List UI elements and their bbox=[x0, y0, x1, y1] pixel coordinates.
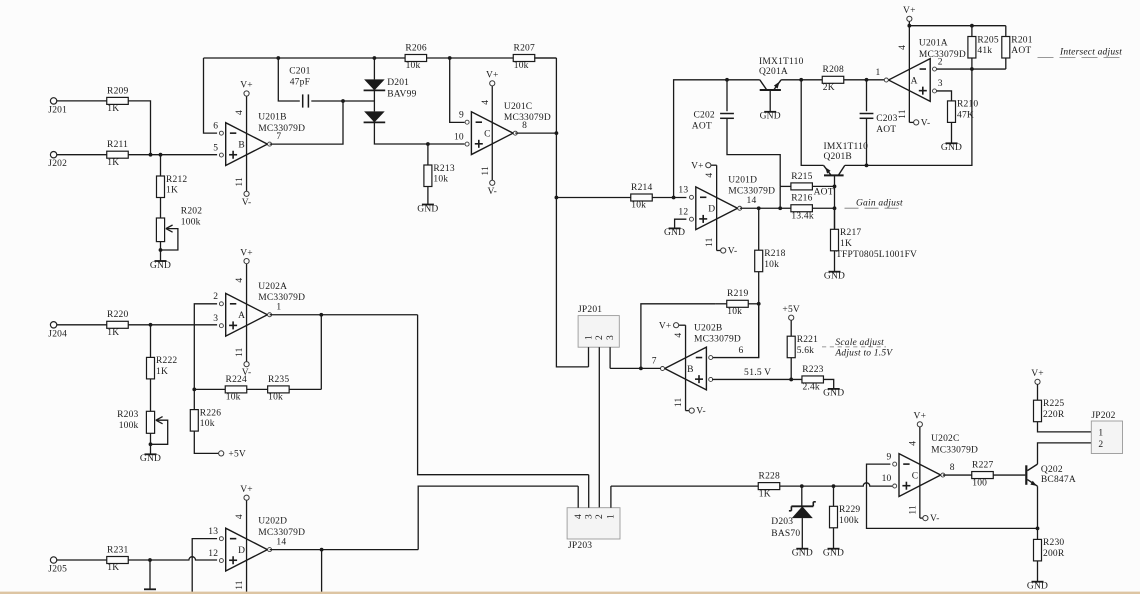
resistor R220 bbox=[107, 310, 129, 338]
svg-text:GND: GND bbox=[760, 112, 781, 122]
power V+ at R225 bbox=[1031, 369, 1044, 384]
svg-text:V+: V+ bbox=[240, 81, 253, 91]
wire R203 to ground bbox=[149, 433, 153, 454]
svg-text:11: 11 bbox=[674, 397, 684, 407]
svg-text:V-: V- bbox=[728, 247, 738, 257]
svg-text:V-: V- bbox=[696, 407, 706, 417]
svg-text:1: 1 bbox=[584, 335, 594, 340]
svg-text:10k: 10k bbox=[226, 393, 241, 403]
label JP201 bbox=[578, 305, 602, 315]
resistor R214 bbox=[631, 183, 653, 211]
resistor R231 bbox=[107, 545, 129, 573]
svg-text:AOT: AOT bbox=[692, 122, 712, 132]
svg-text:R209: R209 bbox=[107, 86, 128, 96]
op-amp U201B section B bbox=[213, 121, 281, 165]
svg-text:GND: GND bbox=[823, 389, 844, 399]
svg-text:Intersect adjust: Intersect adjust bbox=[1059, 47, 1122, 57]
resistor R201 bbox=[1002, 35, 1033, 58]
wire R224 left node bbox=[192, 388, 225, 392]
svg-text:11: 11 bbox=[235, 580, 245, 590]
svg-text:R201: R201 bbox=[1011, 35, 1032, 45]
svg-text:GND: GND bbox=[1027, 582, 1048, 592]
resistor R207 bbox=[513, 43, 535, 71]
wire R215 row bbox=[780, 185, 836, 211]
power +5V at R221 bbox=[782, 305, 800, 320]
wire U201D pin 12 to ground bbox=[675, 219, 687, 228]
resistor R225 bbox=[1034, 399, 1065, 422]
wire to D201 bbox=[373, 58, 375, 79]
JP202 pin 2 label bbox=[1098, 440, 1103, 450]
wire R220 to U202A pin 3 bbox=[128, 323, 217, 327]
wire R225 to JP202 pin 1 bbox=[1038, 422, 1092, 432]
wire Q201B rail left bbox=[801, 80, 823, 166]
wire R213 branch bbox=[426, 142, 430, 165]
wire U202B output to JP201 pin 3 bbox=[610, 367, 660, 371]
wire D203 branch bbox=[801, 486, 803, 506]
svg-text:1: 1 bbox=[607, 514, 617, 519]
svg-text:+5V: +5V bbox=[228, 450, 246, 460]
svg-text:1: 1 bbox=[276, 303, 281, 313]
wire +5V to R221 bbox=[790, 320, 792, 336]
svg-text:V+: V+ bbox=[486, 71, 499, 81]
svg-text:R211: R211 bbox=[107, 140, 128, 150]
resistor R212 bbox=[157, 175, 188, 198]
svg-text:Q201A: Q201A bbox=[759, 67, 788, 77]
wire J202 to R211 bbox=[57, 154, 107, 156]
labels U201C bbox=[504, 102, 551, 123]
svg-text:10k: 10k bbox=[268, 393, 283, 403]
svg-text:R224: R224 bbox=[226, 375, 247, 385]
svg-text:2.4k: 2.4k bbox=[802, 383, 819, 393]
V- power bbox=[721, 247, 738, 257]
svg-text:4: 4 bbox=[574, 514, 584, 519]
JP203 pin 2 bbox=[595, 514, 605, 519]
svg-text:GND: GND bbox=[140, 454, 161, 464]
svg-text:BAV99: BAV99 bbox=[387, 89, 416, 99]
resistor R222 bbox=[147, 356, 178, 379]
wire emitter node to R230 bbox=[1037, 528, 1039, 539]
svg-text:Scale adjust: Scale adjust bbox=[835, 338, 884, 348]
port J204 bbox=[48, 322, 67, 340]
svg-text:10k: 10k bbox=[200, 419, 215, 429]
JP201 pin 3 bbox=[606, 335, 616, 368]
svg-text:D: D bbox=[708, 205, 715, 215]
U201B power rail pins 4/11 bbox=[235, 96, 246, 191]
ground bbox=[760, 112, 781, 122]
wire top feedback rail bbox=[204, 57, 557, 59]
op-amp U202B section B bbox=[652, 346, 749, 390]
svg-text:14: 14 bbox=[276, 537, 286, 547]
svg-text:R202: R202 bbox=[181, 206, 202, 216]
svg-text:V+: V+ bbox=[691, 161, 704, 171]
wire Q202 emitter down bbox=[1037, 486, 1039, 528]
wire R229 to ground bbox=[833, 528, 835, 549]
svg-text:1K: 1K bbox=[107, 328, 119, 338]
wire pin13 node up to C202 rail bbox=[674, 80, 760, 198]
wire C202 bottom to R215 node bbox=[727, 118, 780, 186]
wire pin 6 lead bbox=[712, 304, 759, 358]
wire U202C pin 9 feedback bbox=[867, 464, 1038, 528]
wire R219 row bbox=[715, 303, 727, 305]
svg-text:11: 11 bbox=[705, 237, 715, 247]
resistor R216 bbox=[791, 194, 814, 222]
note Gain adjust bbox=[856, 199, 903, 209]
resistor R221 bbox=[787, 335, 818, 358]
wire node vertical R215-R216 bbox=[779, 186, 781, 208]
svg-text:U202D: U202D bbox=[258, 517, 287, 527]
resistor R213 bbox=[424, 164, 455, 187]
svg-text:10k: 10k bbox=[406, 61, 421, 71]
svg-text:J202: J202 bbox=[48, 159, 67, 169]
node R206/R207/pin9 junction bbox=[448, 56, 452, 60]
svg-text:R220: R220 bbox=[107, 310, 128, 320]
svg-text:MC33079D: MC33079D bbox=[258, 528, 305, 538]
svg-text:GND: GND bbox=[417, 204, 438, 214]
V- power bbox=[242, 362, 252, 379]
wire R227 to Q202 base bbox=[993, 474, 1025, 476]
V+ power bbox=[486, 71, 499, 86]
svg-text:R222: R222 bbox=[156, 356, 177, 366]
svg-text:100k: 100k bbox=[119, 421, 139, 431]
svg-text:9: 9 bbox=[459, 110, 464, 120]
wire output vertical bus bbox=[556, 58, 588, 367]
resistor R205 bbox=[968, 35, 999, 58]
svg-text:D201: D201 bbox=[387, 78, 409, 88]
svg-text:TFPT0805L1001FV: TFPT0805L1001FV bbox=[836, 250, 917, 260]
svg-text:GND: GND bbox=[664, 228, 685, 238]
svg-text:B: B bbox=[687, 365, 694, 375]
resistor R217 bbox=[831, 228, 862, 251]
V- power bbox=[242, 191, 252, 208]
wire R213 to ground bbox=[427, 187, 429, 205]
svg-text:8: 8 bbox=[950, 463, 955, 473]
label R217 part number bbox=[836, 250, 917, 260]
svg-text:R230: R230 bbox=[1043, 538, 1064, 548]
svg-text:10: 10 bbox=[882, 474, 892, 484]
U201C power rail pins 4/11 bbox=[481, 86, 492, 180]
wire R228 to U202C pin 10 (hop over pin9 line) bbox=[780, 483, 893, 488]
resistor R215 bbox=[791, 172, 813, 190]
page bottom border band bbox=[0, 592, 1140, 594]
wire D203 to ground bbox=[801, 518, 803, 549]
svg-text:11: 11 bbox=[235, 347, 245, 357]
wire node to R212 bbox=[160, 155, 162, 176]
svg-text:2: 2 bbox=[213, 292, 218, 302]
svg-text:R229: R229 bbox=[839, 505, 860, 515]
svg-text:6: 6 bbox=[213, 121, 218, 131]
wire Q202 collector to JP202 pin 2 bbox=[1038, 443, 1092, 464]
wire R218 to R219 node bbox=[757, 272, 761, 358]
labels U201A bbox=[919, 39, 966, 60]
wire R212 to R202 bbox=[160, 198, 162, 219]
svg-text:C: C bbox=[484, 130, 491, 140]
svg-text:R227: R227 bbox=[972, 460, 993, 470]
wire J205 to R231 bbox=[57, 559, 107, 561]
V+ power bbox=[903, 6, 916, 21]
svg-text:GND: GND bbox=[792, 549, 813, 559]
ground bbox=[150, 261, 171, 271]
JP201 pin 2 bbox=[595, 335, 605, 508]
svg-text:2: 2 bbox=[595, 514, 605, 519]
svg-text:13: 13 bbox=[678, 186, 688, 196]
svg-text:V+: V+ bbox=[240, 485, 253, 495]
svg-text:4: 4 bbox=[898, 45, 908, 50]
wire U201C pin 8 output bbox=[515, 132, 556, 134]
svg-text:10k: 10k bbox=[433, 175, 448, 185]
wire R231 to U202D pin 12 (hop over pin13 line) bbox=[128, 557, 217, 562]
svg-text:U201C: U201C bbox=[504, 102, 532, 112]
V+ power bbox=[659, 321, 679, 331]
svg-text:3: 3 bbox=[585, 514, 595, 519]
resistor R226 bbox=[190, 408, 221, 431]
node C202 top bbox=[725, 78, 729, 82]
svg-text:5: 5 bbox=[744, 368, 749, 378]
note gain adjust leader bbox=[845, 207, 902, 209]
wire U202C pin 8 output bbox=[943, 474, 972, 476]
node emitter junction bbox=[1036, 527, 1040, 531]
svg-text:1K: 1K bbox=[107, 158, 119, 168]
resistor R228 bbox=[758, 472, 780, 500]
svg-text:47K: 47K bbox=[957, 111, 974, 121]
wire V+ to R225 bbox=[1037, 384, 1039, 400]
svg-text:41k: 41k bbox=[977, 46, 992, 56]
wire U201A pin 3 to R210 bbox=[937, 91, 952, 101]
svg-text:GND: GND bbox=[823, 549, 844, 559]
labels U201B bbox=[258, 113, 305, 134]
svg-text:R217: R217 bbox=[840, 228, 861, 238]
svg-text:100k: 100k bbox=[181, 217, 201, 227]
svg-text:AOT: AOT bbox=[814, 188, 834, 198]
svg-text:2: 2 bbox=[595, 335, 605, 340]
svg-text:B: B bbox=[238, 141, 245, 151]
ground bbox=[824, 272, 845, 282]
svg-text:R205: R205 bbox=[977, 35, 998, 45]
svg-text:R219: R219 bbox=[727, 289, 748, 299]
node Q201B branch bbox=[799, 78, 803, 82]
svg-text:10: 10 bbox=[454, 132, 464, 142]
wire R210 to ground bbox=[951, 122, 953, 143]
svg-text:R223: R223 bbox=[802, 365, 823, 375]
note Intersect adjust bbox=[1059, 47, 1122, 57]
ground bbox=[823, 389, 844, 399]
wire R219 left to pin7 node bbox=[641, 304, 716, 369]
svg-text:7: 7 bbox=[652, 356, 657, 366]
wire U202D output bbox=[270, 548, 419, 552]
svg-text:MC33079D: MC33079D bbox=[931, 445, 978, 455]
svg-text:C202: C202 bbox=[694, 111, 715, 121]
svg-text:D: D bbox=[238, 546, 245, 556]
op-amp U201D section D bbox=[678, 186, 756, 230]
wire R209 to node bbox=[128, 101, 150, 155]
svg-text:R215: R215 bbox=[791, 172, 812, 182]
svg-text:11: 11 bbox=[235, 177, 245, 187]
wire C201 left lead bbox=[278, 58, 300, 101]
svg-text:MC33079D: MC33079D bbox=[258, 293, 305, 303]
svg-text:R216: R216 bbox=[791, 194, 812, 204]
capacitor C202 AOT bbox=[692, 111, 734, 132]
transistor Q201A (IMX1T110) bbox=[759, 57, 804, 112]
svg-text:13.4k: 13.4k bbox=[791, 211, 813, 221]
wire U202D output to JP203 pin 4 bbox=[418, 486, 578, 549]
svg-text:6: 6 bbox=[739, 346, 744, 356]
svg-text:R228: R228 bbox=[759, 472, 780, 482]
wire R223 to ground bbox=[823, 379, 833, 388]
wire R217 to ground bbox=[834, 251, 836, 272]
node J202/R209 junction bbox=[149, 153, 163, 157]
svg-text:R231: R231 bbox=[107, 545, 128, 555]
wire D201 middle bbox=[373, 90, 375, 111]
wire R201 bottom lead bbox=[1005, 58, 1007, 69]
label JP202 bbox=[1091, 411, 1115, 421]
wire base node to R217 bbox=[834, 208, 836, 229]
svg-text:4: 4 bbox=[235, 278, 245, 283]
svg-text:100: 100 bbox=[972, 478, 987, 488]
wire U201A pin 2 to feedback node bbox=[937, 67, 1006, 71]
svg-text:10k: 10k bbox=[764, 260, 779, 270]
svg-text:11: 11 bbox=[481, 166, 491, 176]
svg-text:JP201: JP201 bbox=[578, 305, 602, 315]
U202A power rail pins 4/11 bbox=[235, 264, 246, 362]
ground bbox=[417, 204, 438, 214]
labels U201D bbox=[728, 175, 775, 196]
resistor R230 bbox=[1034, 538, 1065, 561]
resistor R219 bbox=[727, 289, 749, 317]
V+ power bbox=[691, 161, 711, 171]
svg-text:R210: R210 bbox=[957, 100, 978, 110]
svg-text:AOT: AOT bbox=[1011, 46, 1031, 56]
svg-text:R214: R214 bbox=[631, 183, 652, 193]
ground bbox=[664, 228, 685, 238]
resistor R211 bbox=[107, 140, 129, 168]
svg-text:R203: R203 bbox=[117, 410, 138, 420]
svg-text:A: A bbox=[238, 311, 245, 321]
svg-text:10k: 10k bbox=[514, 61, 529, 71]
V+ power bbox=[240, 485, 253, 500]
svg-text:U201A: U201A bbox=[919, 39, 948, 49]
note intersect adjust leader bbox=[1038, 57, 1123, 59]
wire R207 to output node bbox=[534, 57, 556, 59]
svg-text:4: 4 bbox=[235, 110, 245, 115]
wire R205 top lead bbox=[971, 26, 973, 37]
potentiometer R203 bbox=[117, 410, 168, 445]
svg-text:V-: V- bbox=[930, 514, 940, 524]
svg-text:1K: 1K bbox=[840, 239, 852, 249]
svg-text:V+: V+ bbox=[659, 321, 672, 331]
svg-text:V+: V+ bbox=[1031, 369, 1044, 379]
note scale adjust leader bbox=[822, 346, 886, 348]
wire R214 to U201D pin 13 bbox=[652, 196, 686, 200]
svg-text:MC33079D: MC33079D bbox=[694, 335, 741, 345]
wire R222 to R203 bbox=[150, 379, 152, 411]
svg-text:V+: V+ bbox=[903, 6, 916, 16]
svg-text:GND: GND bbox=[824, 272, 845, 282]
node C201 branch bbox=[276, 56, 280, 60]
svg-text:R208: R208 bbox=[823, 65, 844, 75]
svg-text:220R: 220R bbox=[1043, 410, 1065, 420]
svg-text:3: 3 bbox=[606, 335, 616, 340]
wire R224-R235 bbox=[247, 388, 268, 390]
V- power bbox=[923, 514, 940, 524]
svg-text:1.5 V: 1.5 V bbox=[749, 368, 771, 378]
svg-text:1: 1 bbox=[1098, 429, 1103, 439]
svg-text:IMX1T110: IMX1T110 bbox=[824, 142, 869, 152]
resistor R210 bbox=[948, 100, 979, 123]
U202B power rail pins 4/11 bbox=[674, 325, 689, 410]
svg-text:Q201B: Q201B bbox=[824, 152, 852, 162]
svg-text:2: 2 bbox=[1098, 440, 1103, 450]
ground bbox=[823, 549, 844, 559]
JP203 pin 1 bbox=[607, 486, 617, 519]
svg-text:R218: R218 bbox=[764, 249, 785, 259]
note Scale adjust bbox=[834, 338, 893, 358]
JP203 pin 3 bbox=[585, 475, 595, 519]
wire R219 right junction bbox=[748, 303, 758, 305]
ground bbox=[1027, 582, 1048, 592]
U202C power rail pins 4/11 bbox=[908, 427, 922, 518]
wire node to R222 bbox=[150, 325, 152, 358]
op-amp U202D section D bbox=[208, 527, 286, 571]
resistor R229 bbox=[830, 505, 861, 528]
svg-text:AOT: AOT bbox=[876, 125, 896, 135]
resistor R218 bbox=[755, 249, 786, 272]
wire J205 node to ground bbox=[149, 560, 151, 589]
wire feedback down bbox=[320, 315, 322, 390]
JP201 pin 1 bbox=[584, 335, 594, 367]
wire U202B pin 5 (1.5V) bbox=[712, 378, 802, 382]
svg-text:11: 11 bbox=[908, 505, 918, 515]
svg-text:JP202: JP202 bbox=[1091, 411, 1115, 421]
wire node to R226 bbox=[193, 389, 195, 409]
svg-text:MC33079D: MC33079D bbox=[728, 187, 775, 197]
svg-text:5.6k: 5.6k bbox=[797, 346, 814, 356]
wire U201B pin 6 feedback bbox=[204, 58, 218, 133]
svg-text:4: 4 bbox=[908, 441, 918, 446]
svg-text:9: 9 bbox=[887, 452, 892, 462]
svg-text:BAS70: BAS70 bbox=[771, 529, 800, 539]
capacitor C201 47pF bbox=[289, 67, 310, 108]
svg-text:13: 13 bbox=[208, 527, 218, 537]
resistor R227 bbox=[972, 460, 994, 488]
V- power bbox=[689, 407, 706, 417]
svg-text:Adjust to 1.5V: Adjust to 1.5V bbox=[834, 348, 893, 358]
svg-text:MC33079D: MC33079D bbox=[919, 50, 966, 60]
ground bbox=[140, 454, 161, 464]
svg-text:J204: J204 bbox=[48, 329, 67, 339]
svg-text:4: 4 bbox=[235, 514, 245, 519]
capacitor C203 AOT bbox=[860, 80, 898, 166]
svg-text:U201D: U201D bbox=[728, 175, 757, 185]
svg-text:R225: R225 bbox=[1043, 399, 1064, 409]
wire C202 top lead bbox=[726, 80, 728, 111]
V- power bbox=[487, 180, 497, 197]
resistor R224 bbox=[225, 375, 247, 403]
svg-text:5: 5 bbox=[213, 143, 218, 153]
wire U201B pin 7 output bbox=[270, 101, 343, 144]
svg-text:MC33079D: MC33079D bbox=[258, 124, 305, 134]
wire J204 to R220 bbox=[57, 324, 107, 326]
svg-text:12: 12 bbox=[208, 549, 218, 559]
svg-text:GND: GND bbox=[150, 261, 171, 271]
connector JP201 body bbox=[578, 316, 619, 348]
V+ power bbox=[240, 81, 253, 96]
V+ power bbox=[914, 412, 927, 427]
V- power bbox=[914, 119, 931, 129]
power +5V at R226 bbox=[219, 450, 246, 460]
wire R230 to ground bbox=[1037, 561, 1039, 582]
diode D201 (BAV99) upper bbox=[364, 78, 417, 100]
wire D201 to U201C pin 10 bbox=[374, 122, 464, 144]
svg-text:2K: 2K bbox=[823, 83, 835, 93]
